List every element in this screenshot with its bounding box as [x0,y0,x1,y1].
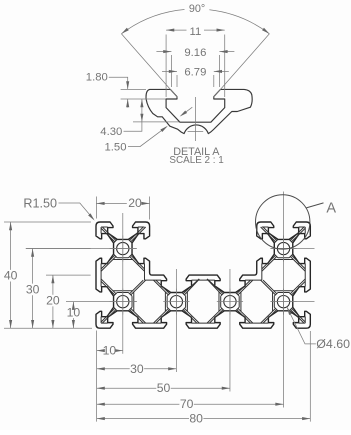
dimension 10 (bottom) [97,350,123,352]
svg-text:6.79: 6.79 [184,67,206,79]
svg-text:20: 20 [128,196,142,210]
svg-text:30: 30 [130,362,144,376]
center hole C3b [224,295,236,307]
chamfer leader arrow inside cavity [183,107,192,114]
center hole C1b [117,295,129,307]
main profile outer contour [96,222,310,328]
bottom dimension extension lines [97,331,311,422]
dimension 50 (bottom) [97,387,230,389]
dimension 80 (bottom) [97,418,311,420]
dimension 6.79 [177,75,214,87]
diameter 4.60 leader [287,307,316,344]
svg-text:9.16: 9.16 [184,47,206,59]
cell C2b interior tube and webs [153,279,199,323]
center hole C4t [277,242,289,254]
dimension 20 (left) [52,275,54,328]
svg-text:A: A [326,200,336,216]
svg-text:90°: 90° [189,3,205,15]
90 degree dimension arc [121,9,269,33]
dimension 10 (left) [72,302,74,329]
svg-text:10: 10 [67,305,81,319]
left dimension extension lines [4,222,92,328]
svg-text:4.30: 4.30 [100,126,122,138]
dimension 11 [166,35,225,98]
dimension 20 (top) [96,197,149,220]
svg-text:11: 11 [190,26,202,38]
cell C3b interior tube and webs [207,279,253,323]
surface skin walls [101,227,305,323]
cell C1b interior tube and webs [101,279,146,323]
svg-text:30: 30 [26,282,40,296]
svg-text:R1.50: R1.50 [23,196,57,210]
svg-text:10: 10 [103,344,117,358]
svg-text:1.80: 1.80 [86,72,108,84]
horizontal centerlines rows [26,249,315,302]
dimension 4.30 [133,121,180,123]
svg-text:20: 20 [46,294,60,308]
svg-text:80: 80 [189,412,203,426]
dimension 1.50 leader [128,127,167,147]
center hole C1t [117,242,129,254]
center hole C2b [170,295,182,307]
R1.50 leader [59,203,94,219]
dimension 40 (left) [10,222,12,328]
detail slot centerline [188,97,204,141]
svg-text:Ø4.60: Ø4.60 [316,337,350,351]
svg-text:SCALE 2 : 1: SCALE 2 : 1 [169,155,224,166]
dimension 30 (bottom) [97,368,177,370]
hole crosshair centerlines [110,236,297,315]
cell C1t interior tube and webs [101,227,146,271]
detail circle A [256,195,310,249]
dimension 9.16 [171,55,219,87]
cell C4b interior tube and webs [261,279,306,323]
center hole C4b [277,295,289,307]
svg-text:70: 70 [180,397,194,411]
90 degree angle side lines [121,34,269,98]
cell C4t interior tube and webs [261,227,306,271]
dimension 30 (left) [32,249,34,329]
dimension 1.80 [121,89,166,99]
detail view outline [146,89,252,133]
svg-text:1.50: 1.50 [105,142,127,154]
dimension 70 (bottom) [97,403,284,405]
svg-text:50: 50 [157,381,171,395]
long centerlines / extension lines vertical [123,192,284,408]
svg-text:40: 40 [4,269,18,283]
